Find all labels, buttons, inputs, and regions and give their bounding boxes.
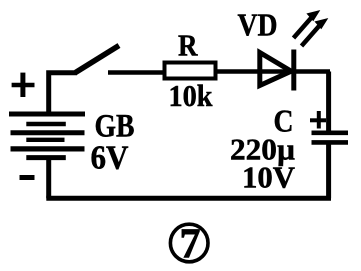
wire: capacitor to bottom rail <box>326 142 331 198</box>
switch S blade <box>76 46 120 73</box>
wire: resistor to LED (passes under diode triangle) <box>216 69 330 73</box>
wire: switch fixed contact to resistor <box>108 70 165 74</box>
figure number circle <box>170 224 208 262</box>
wire: battery positive to switch (top-left corner) <box>49 73 77 113</box>
svg-text:10V: 10V <box>242 160 296 195</box>
resistor R body <box>165 63 216 79</box>
battery GB minus sign <box>20 175 35 180</box>
svg-text:6V: 6V <box>91 140 129 177</box>
capacitor C bottom plate <box>312 140 349 145</box>
battery plate short 3 <box>26 155 66 160</box>
svg-text:10k: 10k <box>169 78 214 113</box>
svg-text:R: R <box>178 28 198 63</box>
wire: battery negative to bottom rail <box>46 157 51 198</box>
LED VD triangle (anode) <box>260 53 291 86</box>
svg-text:VD: VD <box>238 7 278 43</box>
battery plate short 2 <box>26 138 64 142</box>
LED light arrow 2 <box>302 19 328 46</box>
wire: LED cathode down right side to capacitor <box>326 72 331 133</box>
LED light arrow 1 <box>294 11 320 38</box>
battery GB plus sign <box>12 73 35 97</box>
wire: bottom rail <box>46 196 331 201</box>
battery plate short 1 <box>26 122 66 126</box>
battery plate long 2 <box>11 130 85 135</box>
capacitor C plus sign <box>310 111 326 129</box>
battery plate long 3 <box>11 146 85 151</box>
LED VD cathode bar <box>291 50 296 91</box>
battery plate long 1 <box>9 112 85 117</box>
svg-text:7: 7 <box>180 222 201 268</box>
capacitor C top plate <box>312 131 349 136</box>
